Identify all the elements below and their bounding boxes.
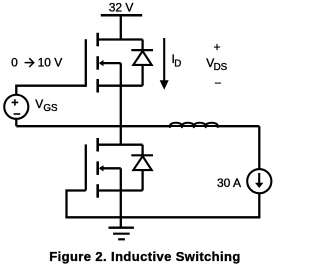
svg-text:D: D: [174, 58, 181, 69]
svg-text:DS: DS: [214, 62, 228, 73]
wire Q1 source to switch node: [120, 86, 122, 127]
wire right rail bottom: [258, 193, 260, 217]
inductor L1: [170, 123, 219, 128]
transistor Q2 (bottom MOSFET): [86, 138, 143, 198]
current source I1 30 A: [247, 169, 271, 193]
wire VDD to Q1 drain: [120, 15, 122, 39]
VDD supply rail bar: [101, 14, 142, 17]
ground: [109, 217, 134, 239]
wire VGS minus to switch node: [15, 119, 17, 127]
wire right rail top: [258, 126, 260, 169]
svg-text:30 A: 30 A: [217, 176, 241, 190]
wire switch node to Q2 drain: [120, 126, 122, 145]
wire Q2 gate to ground rail: [67, 191, 86, 218]
voltage source VGS: [4, 95, 28, 119]
wire switch node horizontal: [16, 125, 170, 127]
current arrow ID: [160, 38, 169, 90]
wire VGS plus to Q1 gate: [16, 86, 86, 95]
transistor Q1 (top MOSFET): [86, 33, 143, 93]
svg-text:32 V: 32 V: [109, 1, 134, 15]
svg-text:+: +: [213, 40, 220, 54]
wire Q2 source to ground rail: [120, 191, 122, 218]
svg-text:Figure 2. Inductive Switching: Figure 2. Inductive Switching: [49, 249, 240, 264]
svg-text:10 V: 10 V: [38, 55, 63, 69]
svg-text:GS: GS: [43, 103, 58, 114]
svg-text:V: V: [35, 97, 43, 111]
wire ground rail: [65, 216, 260, 218]
svg-text:0: 0: [11, 55, 18, 69]
diode D1 (body diode of Q1): [131, 40, 153, 86]
wire inductor to right rail: [218, 125, 260, 127]
arrow glyph in 0 to 10 V label: [25, 58, 34, 67]
svg-text:−: −: [214, 76, 221, 90]
diode D2 (body diode of Q2): [131, 145, 153, 191]
